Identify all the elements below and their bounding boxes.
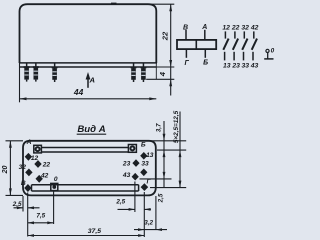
coil lead A xyxy=(204,30,206,40)
svg-text:Г: Г xyxy=(185,60,190,67)
svg-text:33: 33 xyxy=(141,160,149,167)
svg-text:2,5: 2,5 xyxy=(115,199,125,206)
svg-text:43: 43 xyxy=(250,62,259,69)
svg-text:Б: Б xyxy=(141,142,146,149)
case pin symbol circle xyxy=(266,49,269,52)
pin 4 side view xyxy=(131,63,137,82)
svg-text:2,5: 2,5 xyxy=(158,193,165,203)
svg-text:12: 12 xyxy=(222,25,230,32)
svg-text:7,5: 7,5 xyxy=(36,213,45,220)
ext top edge right xyxy=(150,140,186,142)
svg-text:13: 13 xyxy=(223,62,231,69)
coil lead B xyxy=(204,49,206,58)
ext line 43 column down xyxy=(134,182,136,213)
relay base plate line xyxy=(20,66,157,68)
ext top edge left xyxy=(6,140,24,142)
svg-text:5×2,5=12,5: 5×2,5=12,5 xyxy=(173,110,180,143)
svg-text:23: 23 xyxy=(231,62,240,69)
relay body side view outline xyxy=(20,4,157,63)
contact 4 blade xyxy=(252,39,257,50)
ext line body left edge down xyxy=(22,196,24,212)
ext G-row right xyxy=(150,187,186,189)
svg-text:0: 0 xyxy=(54,176,58,183)
diamond pin 32 xyxy=(25,169,32,177)
ext line G column down xyxy=(143,192,145,237)
coil lead G xyxy=(185,49,187,58)
diamond pin 22 xyxy=(34,160,41,168)
pin 1 side view xyxy=(24,63,30,82)
ext line 0 column down xyxy=(53,192,55,225)
contact 1 blade xyxy=(223,39,228,50)
coil lead V xyxy=(185,30,187,40)
ext B-row right xyxy=(157,149,186,151)
contact 2 top lead xyxy=(234,31,236,38)
bottom view body outline xyxy=(23,141,156,196)
svg-text:А: А xyxy=(26,139,32,146)
dim line 20 xyxy=(9,141,11,196)
pin bottom extension line xyxy=(146,78,174,80)
svg-text:33: 33 xyxy=(242,62,250,69)
dim line 3,7 / 2,5 column xyxy=(163,121,165,188)
case pin bar xyxy=(264,58,273,60)
svg-text:13: 13 xyxy=(146,152,154,159)
svg-text:Вид А: Вид А xyxy=(77,124,105,135)
svg-text:37,5: 37,5 xyxy=(88,228,101,235)
svg-text:43: 43 xyxy=(122,172,131,179)
contact 3 top lead xyxy=(243,31,245,38)
svg-text:3,2: 3,2 xyxy=(144,219,153,226)
svg-text:3,7: 3,7 xyxy=(155,123,162,132)
base line extension right xyxy=(156,66,174,68)
view direction arrow A xyxy=(87,75,89,88)
diamond pin 42 xyxy=(36,175,43,183)
top slot lines xyxy=(41,148,129,153)
pin B(Cyr) square xyxy=(128,145,136,153)
relay body bottom line xyxy=(19,62,157,64)
svg-text:0: 0 xyxy=(271,47,275,54)
svg-text:44: 44 xyxy=(73,87,84,97)
body right edge extension down xyxy=(155,63,157,79)
svg-text:В: В xyxy=(21,180,26,187)
contact 2 blade xyxy=(233,39,238,50)
svg-text:В: В xyxy=(183,24,188,31)
pin 5 side view xyxy=(140,63,146,82)
svg-text:23: 23 xyxy=(122,160,131,167)
svg-text:20: 20 xyxy=(2,166,9,175)
ext line body right edge down xyxy=(155,196,157,230)
coil winding rectangle xyxy=(177,40,216,49)
diamond pin 23 xyxy=(132,159,139,167)
case pin stem xyxy=(267,53,269,59)
dimension line 22 and 4 xyxy=(170,4,172,95)
top edge nub xyxy=(111,2,117,4)
dimension line 44 xyxy=(20,98,157,100)
coil divider xyxy=(195,40,197,49)
pin 0 square xyxy=(51,183,58,190)
svg-text:42: 42 xyxy=(250,25,259,32)
ext bottom edge left xyxy=(6,194,24,196)
svg-text:Б: Б xyxy=(203,60,208,67)
pin 2 side view xyxy=(33,63,39,82)
contact 2 bottom lead xyxy=(233,52,235,61)
diamond pin 33 xyxy=(140,169,147,177)
svg-text:4: 4 xyxy=(158,71,167,77)
ext 43-row right xyxy=(140,178,172,180)
dim line 3,2 xyxy=(134,229,167,231)
pin 3 side view xyxy=(52,63,58,82)
pin A square xyxy=(34,145,42,153)
contact 1 bottom lead xyxy=(224,52,226,61)
pin V diamond xyxy=(24,184,31,192)
contact 3 blade xyxy=(242,39,247,50)
diamond pin 13 xyxy=(140,152,147,160)
dim line 37,5 xyxy=(28,235,145,237)
diamond pin 12 xyxy=(25,153,32,161)
dim 2,5 right arrows xyxy=(118,208,151,210)
view label underline xyxy=(77,133,107,135)
svg-text:2,5: 2,5 xyxy=(12,201,22,208)
svg-text:32: 32 xyxy=(241,25,249,32)
ext line V column down xyxy=(27,193,29,237)
svg-text:А: А xyxy=(201,24,207,31)
pin G diamond xyxy=(141,183,149,191)
top edge extension line right xyxy=(149,3,174,5)
contact 4 top lead xyxy=(253,31,255,38)
dim 2,5 left arrows xyxy=(14,207,40,209)
svg-text:22: 22 xyxy=(42,161,51,168)
diamond pin 43 xyxy=(132,173,139,181)
dim line 5x2,5 column xyxy=(179,112,181,188)
bottom slot lines xyxy=(32,185,139,191)
contact 1 top lead xyxy=(224,31,226,38)
svg-text:42: 42 xyxy=(40,173,49,180)
contact 4 bottom lead xyxy=(252,52,254,61)
svg-text:12: 12 xyxy=(31,155,39,162)
svg-text:22: 22 xyxy=(231,25,240,32)
dim line 7,5 xyxy=(28,222,54,224)
svg-text:22: 22 xyxy=(160,31,169,41)
contact 3 bottom lead xyxy=(243,52,245,61)
svg-text:А: А xyxy=(88,75,94,84)
svg-text:32: 32 xyxy=(19,164,27,171)
extension line left for dim 44 xyxy=(19,63,21,102)
